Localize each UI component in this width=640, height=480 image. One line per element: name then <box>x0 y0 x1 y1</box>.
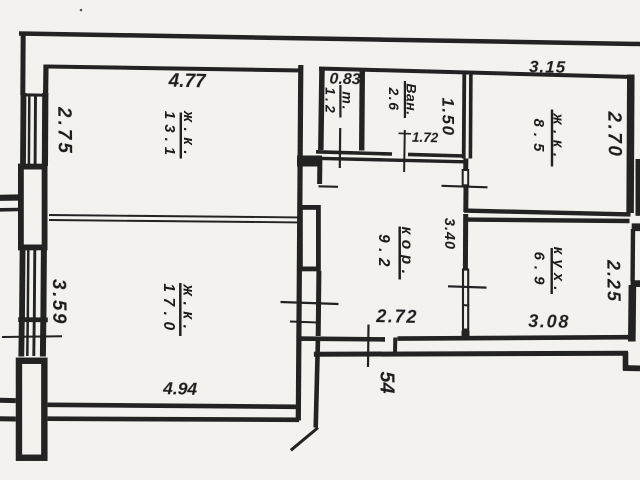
wall room 8.5 right <box>626 75 634 214</box>
room label zh.k. 17.0 <box>160 283 197 336</box>
door box room 8.5 <box>463 170 469 185</box>
window W2 upper section glass line 2 <box>33 250 36 318</box>
door tick van. <box>403 130 406 172</box>
door reveal tick corridor left wall top <box>319 185 339 188</box>
wire left inner wall upper <box>43 65 49 96</box>
door leaf entry (diagonal) <box>291 428 318 451</box>
window W2 upper section glass line 1 <box>27 250 30 318</box>
wire bottom wall lower line left stub <box>0 416 16 421</box>
wire partition 13.1/17.0 line 1 <box>49 215 298 217</box>
wire stub wall to left edge lower <box>0 208 18 212</box>
wire t./van. bottom wall upper line (right of van door) <box>408 154 464 156</box>
wire bottom-right jog vertical <box>623 352 629 370</box>
pier P2 (bottom-left corner block) <box>19 361 44 458</box>
door tick t. <box>339 128 342 168</box>
room label van. 2.6 <box>386 81 420 118</box>
window W1 glass line 1 <box>28 95 31 165</box>
wall B segment (corridor left skin lower) <box>316 271 322 336</box>
window W2 lower section glass line 1 <box>26 321 29 356</box>
wall A (rooms right wall / corridor left skin) <box>298 65 301 421</box>
wall B segment (vestibule) <box>316 341 318 428</box>
wall van. right line 1 <box>462 72 466 159</box>
wall B segment (t. left wall) <box>321 68 322 151</box>
wall kitchen right upper <box>630 229 635 281</box>
wire t./van. bottom wall lower line <box>316 158 465 162</box>
window W2 lower section outer line <box>18 321 24 357</box>
wire outer top wall <box>19 34 640 45</box>
door tick kitchen <box>448 286 487 287</box>
window W2 upper section outer line <box>19 247 25 318</box>
room label zh.k. 13.1 <box>161 110 197 160</box>
wire bottom-right jog horizontal <box>623 365 640 371</box>
dimension tick corridor left (3.40 lower) <box>281 302 339 304</box>
window W1 outer line <box>20 93 26 166</box>
window W1 glass line 2 <box>34 95 37 165</box>
door tick van. top dash <box>399 132 412 135</box>
window W2 upper section inner line <box>40 247 47 318</box>
wall corridor right segment 2 <box>463 186 468 212</box>
wall corridor right segment 3 <box>463 214 468 269</box>
window W2 lower section inner line <box>40 321 46 357</box>
wire inner top wall (t./van./8.5 top) <box>319 69 633 78</box>
wire t./van. bottom wall upper line (left of van door) <box>316 152 392 154</box>
wire bottom wall lower line <box>48 419 299 420</box>
wall B segment (corridor left skin upper) <box>317 158 322 184</box>
wall kitchen right lower <box>628 285 636 342</box>
window W2 lower section glass line 2 <box>32 321 35 356</box>
wall corridor right segment 1 <box>463 159 468 171</box>
edge block right of room 8.5 <box>636 159 640 216</box>
window W1 top sill <box>21 93 49 97</box>
wire corridor bottom wall upper line left <box>297 336 386 341</box>
wall divider 8.5/kitchen lower line <box>466 220 630 221</box>
wire corridor bottom wall jamb <box>393 338 397 354</box>
wire stub wall to left edge upper <box>0 194 18 201</box>
dimension tick 2.72 left end <box>290 322 318 323</box>
door box D1 (room door in corridor left wall) <box>300 207 318 269</box>
window W2 mid connector <box>18 317 48 322</box>
wire bottom wall upper line left stub <box>0 398 16 403</box>
wall divider t./van. <box>359 70 365 151</box>
wall divider 8.5/kitchen upper line <box>464 211 631 215</box>
wire bottom wall upper line <box>48 405 297 407</box>
room label kor. 9.2 <box>375 226 415 279</box>
wall van. right line 2 <box>469 72 473 159</box>
room label t. 1.2 <box>323 85 356 118</box>
dimension tick 54 (vertical through bottom wall) <box>367 325 370 368</box>
edge block right of kitchen upper <box>632 223 640 231</box>
scan speck <box>80 9 83 12</box>
door box kitchen <box>463 270 468 330</box>
room label kux. 6.9 <box>531 247 568 296</box>
edge block right of kitchen mid <box>631 280 640 287</box>
door tick room 8.5 <box>442 186 488 188</box>
wire left outer wall upper <box>20 32 25 96</box>
wire bottom wall lower line right <box>314 353 628 354</box>
door box kitchen mid connector <box>462 304 469 307</box>
junction block at t. bottom-left <box>297 156 322 167</box>
dimension tick 3.59 <box>2 335 62 338</box>
window W1 bottom sill <box>18 164 47 169</box>
wall corridor right bottom block <box>462 331 470 340</box>
pier P1 (wall block between windows) <box>21 167 45 248</box>
wire inner top wall (room 13.1 top) <box>47 67 303 71</box>
room label zh.k. 8.5 <box>530 110 567 167</box>
wire bottom wall upper line right (under kitchen) <box>398 337 630 338</box>
wire partition 13.1/17.0 line 2 <box>49 220 298 222</box>
window W1 inner line <box>42 93 49 166</box>
